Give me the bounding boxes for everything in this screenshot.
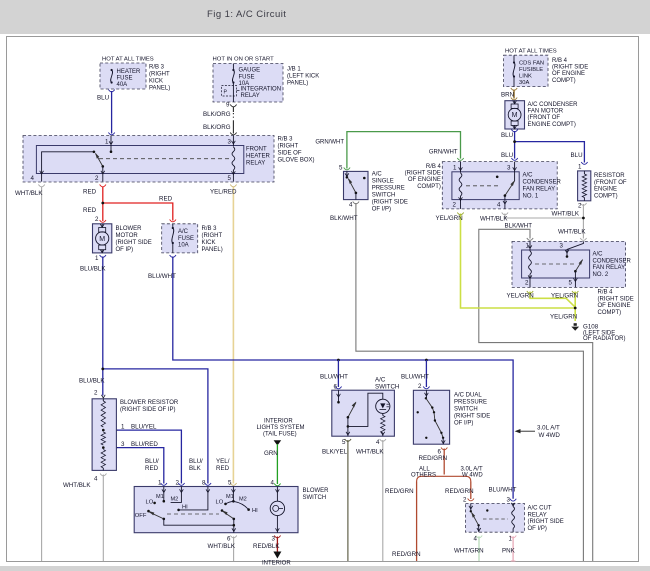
svg-text:BLU: BLU	[97, 95, 109, 102]
svg-text:(RIGHT SIDE: (RIGHT SIDE	[116, 240, 152, 246]
svg-text:HOT AT ALL TIMES: HOT AT ALL TIMES	[102, 57, 154, 63]
svg-text:RELAY: RELAY	[241, 93, 260, 99]
wire BRN fusible link to condenser fan motor	[513, 90, 515, 99]
svg-text:3.0L A/T: 3.0L A/T	[537, 425, 560, 432]
svg-text:BLU/YEL: BLU/YEL	[131, 423, 157, 430]
svg-text:(FRONT OF: (FRONT OF	[594, 180, 627, 186]
wire RED/GRN all-others branch to bottom	[416, 482, 418, 562]
svg-text:RED/GRN: RED/GRN	[392, 551, 421, 558]
svg-text:M2: M2	[239, 496, 247, 502]
wire YEL/GRN relays to ground G108	[461, 214, 576, 309]
svg-text:PRESSURE: PRESSURE	[454, 400, 487, 406]
svg-text:2: 2	[525, 280, 529, 287]
svg-text:BLU/RED: BLU/RED	[131, 441, 158, 448]
svg-text:8: 8	[202, 480, 206, 487]
svg-text:KICK: KICK	[202, 240, 216, 246]
svg-text:30A: 30A	[519, 80, 529, 86]
wire BLK/WHT relay2 pin1 loop to bottom rail	[479, 229, 593, 561]
svg-text:R/B 3: R/B 3	[278, 137, 294, 143]
svg-text:BLOWER: BLOWER	[116, 226, 143, 232]
svg-text:M: M	[99, 236, 105, 243]
svg-text:1: 1	[121, 423, 125, 430]
svg-text:M: M	[512, 112, 518, 119]
svg-text:(RIGHT: (RIGHT	[202, 233, 223, 239]
svg-text:W 4WD: W 4WD	[462, 473, 483, 479]
relay coil	[232, 136, 234, 147]
svg-text:INTERIOR: INTERIOR	[264, 419, 293, 425]
svg-text:(RIGHT SIDE OF IP): (RIGHT SIDE OF IP)	[120, 407, 176, 413]
svg-text:BLOWER RESISTOR: BLOWER RESISTOR	[120, 400, 179, 406]
svg-text:BLU/BLK: BLU/BLK	[79, 378, 105, 385]
svg-text:BLU/WHT: BLU/WHT	[489, 487, 517, 494]
wire RED/GRN 4wd branch to cut relay pin 2	[470, 482, 472, 500]
svg-text:MOTOR: MOTOR	[116, 233, 139, 239]
svg-text:4: 4	[271, 480, 275, 487]
wire BLU heater fuse to front heater relay pin 1	[111, 91, 113, 134]
svg-text:PNK: PNK	[502, 548, 516, 555]
svg-text:4: 4	[31, 175, 35, 182]
svg-text:6: 6	[438, 449, 442, 456]
svg-text:HOT AT ALL TIMES: HOT AT ALL TIMES	[505, 49, 557, 55]
svg-text:BLU: BLU	[501, 132, 513, 139]
svg-text:A/C CONDENSER: A/C CONDENSER	[528, 102, 579, 108]
wire BLU/WHT A/C fuse to A/C switch, dual pressure switch, cut relay	[173, 257, 513, 499]
svg-text:INTEGRATION: INTEGRATION	[241, 87, 282, 93]
wire BLU/YEL resistor tap1 to blower switch pin 2	[103, 430, 181, 483]
svg-text:(RIGHT: (RIGHT	[149, 72, 170, 78]
svg-text:YEL/GRN: YEL/GRN	[551, 293, 578, 300]
svg-text:SIDE OF: SIDE OF	[278, 151, 302, 157]
svg-text:3: 3	[272, 536, 276, 543]
svg-text:HEATER: HEATER	[246, 154, 271, 160]
A/C condenser fan relay no.1	[442, 162, 557, 209]
svg-text:5: 5	[569, 280, 573, 287]
svg-text:WHT/BLK: WHT/BLK	[15, 190, 43, 197]
svg-text:(RIGHT SIDE: (RIGHT SIDE	[454, 414, 490, 420]
svg-text:40A: 40A	[117, 82, 128, 88]
svg-text:OF ENGINE: OF ENGINE	[552, 71, 585, 77]
svg-text:R/B 4: R/B 4	[426, 164, 442, 170]
svg-text:5: 5	[228, 175, 232, 182]
svg-text:OTHERS: OTHERS	[411, 473, 436, 479]
svg-text:PANEL): PANEL)	[287, 81, 308, 87]
svg-text:OF I/P): OF I/P)	[372, 207, 391, 213]
svg-text:BLU: BLU	[501, 152, 513, 159]
svg-text:6: 6	[227, 536, 231, 543]
wire WHT/GRN cut relay pin4 to bottom	[478, 536, 480, 561]
svg-text:OF RADIATOR): OF RADIATOR)	[583, 336, 625, 342]
svg-text:WHT/BLK: WHT/BLK	[63, 482, 91, 489]
svg-text:FUSIBLE: FUSIBLE	[519, 67, 543, 73]
svg-text:A/C CUT: A/C CUT	[528, 506, 552, 512]
svg-text:WHT/BLK: WHT/BLK	[552, 211, 580, 218]
svg-text:2: 2	[578, 203, 582, 210]
svg-text:(TAIL FUSE): (TAIL FUSE)	[263, 432, 297, 438]
svg-text:HI: HI	[182, 504, 188, 510]
svg-text:(RIGHT SIDE: (RIGHT SIDE	[528, 519, 564, 525]
svg-text:1: 1	[578, 164, 582, 171]
blower switch left gang	[163, 487, 165, 501]
svg-text:WHT/BLK: WHT/BLK	[558, 229, 586, 236]
A/C condenser fan motor	[505, 101, 525, 129]
svg-text:R/B 4: R/B 4	[552, 58, 568, 64]
wire BLK/YEL a/c switch pin5 to bottom	[347, 440, 349, 561]
relay2 switch	[567, 241, 583, 256]
svg-text:GLOVE BOX): GLOVE BOX)	[278, 158, 315, 164]
svg-text:9: 9	[226, 102, 230, 109]
svg-text:J/B 1: J/B 1	[287, 67, 301, 73]
svg-text:3: 3	[560, 243, 564, 250]
svg-text:W 4WD: W 4WD	[539, 432, 561, 439]
svg-text:BLOWER: BLOWER	[303, 488, 330, 494]
svg-text:R/B 3: R/B 3	[202, 226, 218, 232]
svg-text:4: 4	[94, 475, 98, 482]
wire WHT/BLK blower switch pin6 to bottom	[233, 537, 235, 562]
relay switch arm	[96, 154, 103, 167]
svg-text:SWITCH: SWITCH	[372, 193, 396, 199]
svg-text:OF I/P): OF I/P)	[528, 526, 547, 532]
svg-text:2: 2	[95, 175, 99, 182]
svg-text:LO: LO	[146, 500, 154, 506]
wire BLU condenser fan motor to relay1 pin3 and resistor	[514, 131, 516, 159]
svg-text:ENGINE: ENGINE	[594, 187, 617, 193]
svg-text:2: 2	[94, 390, 98, 397]
svg-text:GRN: GRN	[264, 450, 278, 457]
svg-text:G108: G108	[583, 324, 599, 331]
svg-text:ALL: ALL	[419, 466, 430, 472]
A/C condenser fan relay no.2	[512, 241, 626, 287]
svg-text:10A: 10A	[178, 243, 189, 249]
svg-text:OF I/P): OF I/P)	[454, 421, 473, 427]
svg-text:(RIGHT SIDE: (RIGHT SIDE	[552, 65, 588, 71]
relay contact: pin4 path	[42, 152, 94, 182]
svg-text:KICK: KICK	[149, 79, 163, 85]
svg-text:NO. 2: NO. 2	[593, 272, 609, 278]
svg-text:2: 2	[95, 216, 99, 223]
svg-text:OFF: OFF	[135, 513, 147, 519]
svg-text:HI: HI	[252, 508, 258, 514]
wire RED/GRN dual pressure pin6 split branches	[443, 449, 445, 475]
relay2 coil	[529, 241, 531, 251]
svg-text:2: 2	[463, 497, 467, 504]
svg-text:WHT/BLK: WHT/BLK	[356, 449, 384, 456]
integration relay sub-symbol	[222, 86, 237, 97]
wire RED/BLK blower switch pin3 arrow to interior lights	[276, 537, 278, 552]
svg-text:FUSE: FUSE	[117, 76, 133, 82]
svg-text:(FRONT OF: (FRONT OF	[528, 115, 561, 121]
wire GRN interior lights to blower switch pin 4	[274, 440, 282, 445]
svg-text:RED: RED	[83, 207, 97, 214]
svg-text:BLU/WHT: BLU/WHT	[320, 374, 348, 381]
svg-text:1: 1	[95, 255, 99, 262]
svg-text:1: 1	[509, 536, 513, 543]
note 3.0L A/T W 4WD arrow	[520, 430, 536, 432]
svg-text:2: 2	[453, 202, 457, 209]
svg-text:BLU/WHT: BLU/WHT	[401, 374, 429, 381]
wire WHT/BLK blower resistor pin4 to bottom	[102, 475, 104, 562]
svg-text:(LEFT KICK: (LEFT KICK	[287, 74, 319, 80]
svg-text:RED: RED	[83, 189, 97, 196]
wire WHT/BLK a/c switch pin4 to bottom	[382, 440, 384, 561]
svg-text:FUSE: FUSE	[178, 236, 194, 242]
relay contact: pin1 feed	[110, 136, 112, 152]
svg-text:YEL/GRN: YEL/GRN	[436, 215, 463, 222]
svg-text:OF ENGINE: OF ENGINE	[408, 177, 441, 183]
svg-text:PRESSURE: PRESSURE	[372, 186, 405, 192]
svg-text:RED/GRN: RED/GRN	[385, 488, 414, 495]
svg-text:SWITCH: SWITCH	[303, 495, 327, 501]
title bar	[0, 0, 650, 34]
svg-text:ENGINE COMPT): ENGINE COMPT)	[528, 122, 576, 128]
svg-text:RED: RED	[216, 465, 230, 472]
svg-text:A/C: A/C	[523, 173, 534, 179]
svg-text:6: 6	[334, 384, 338, 391]
svg-text:SWITCH: SWITCH	[375, 383, 399, 390]
svg-text:A/C: A/C	[178, 229, 189, 235]
svg-text:2: 2	[418, 383, 422, 390]
wire WHT/BLK front heater relay pin 4 to bottom	[41, 187, 43, 562]
svg-text:FAN MOTOR: FAN MOTOR	[528, 109, 564, 115]
svg-text:3.0L A/T: 3.0L A/T	[461, 466, 483, 472]
svg-text:FAN RELAY: FAN RELAY	[593, 265, 626, 271]
svg-text:PANEL): PANEL)	[149, 86, 170, 92]
svg-text:(RIGHT SIDE: (RIGHT SIDE	[405, 171, 441, 177]
svg-text:GRN/WHT: GRN/WHT	[429, 150, 458, 156]
svg-text:RED: RED	[145, 465, 159, 472]
svg-text:BRN: BRN	[501, 92, 514, 99]
svg-text:WHT/BLK: WHT/BLK	[480, 216, 508, 223]
svg-text:RELAY: RELAY	[528, 512, 547, 518]
svg-text:CONDENSER: CONDENSER	[523, 180, 562, 186]
svg-text:(RIGHT SIDE: (RIGHT SIDE	[372, 200, 408, 206]
svg-text:A/C: A/C	[593, 252, 604, 258]
svg-text:BLU: BLU	[571, 152, 583, 159]
wire WHT/BLK relay1 pin4 + resistor pin2 to relay2 pin3	[505, 214, 584, 239]
svg-text:PANEL): PANEL)	[202, 247, 223, 253]
svg-text:RED/BLK: RED/BLK	[253, 543, 280, 550]
A/C fuse 10A	[162, 224, 198, 253]
ground G108	[574, 323, 577, 326]
svg-text:R/B 3: R/B 3	[149, 65, 165, 71]
svg-text:BLU/BLK: BLU/BLK	[80, 266, 106, 273]
svg-text:OF ENGINE: OF ENGINE	[598, 303, 631, 309]
wire YEL/RED relay pin5 to blower switch pin 5	[232, 187, 234, 484]
svg-text:R/B 4: R/B 4	[598, 290, 614, 296]
footer bar	[0, 566, 650, 571]
svg-text:M2: M2	[171, 497, 179, 503]
svg-text:HOT IN ON OR START: HOT IN ON OR START	[213, 57, 275, 63]
svg-text:LINK: LINK	[519, 74, 532, 80]
svg-text:A/C: A/C	[372, 172, 383, 178]
svg-text:FAN RELAY: FAN RELAY	[523, 187, 556, 193]
svg-text:P: P	[224, 90, 228, 96]
svg-text:BLK/ORG: BLK/ORG	[203, 124, 231, 131]
svg-text:RESISTOR: RESISTOR	[594, 173, 625, 179]
front heater relay R/B3	[23, 136, 274, 183]
svg-text:FRONT: FRONT	[246, 147, 267, 153]
svg-text:GRN/WHT: GRN/WHT	[315, 140, 344, 146]
svg-text:3: 3	[507, 497, 511, 504]
wire BLK/ORG gauge fuse to relay pin 3	[232, 107, 234, 113]
wire GRN/WHT single pressure switch to relay1 pin 1	[347, 132, 461, 169]
svg-text:BLK: BLK	[189, 465, 202, 472]
relay1 switch	[514, 162, 516, 181]
svg-text:YEL/GRN: YEL/GRN	[507, 293, 534, 300]
svg-text:OF IP): OF IP)	[116, 247, 134, 253]
svg-text:M1: M1	[156, 494, 164, 500]
svg-text:WHT/GRN: WHT/GRN	[454, 548, 484, 555]
svg-text:LIGHTS SYSTEM: LIGHTS SYSTEM	[257, 425, 305, 431]
wire PNK cut relay pin1 to bottom	[512, 536, 514, 561]
svg-text:BLK/YEL: BLK/YEL	[322, 449, 348, 456]
svg-text:(RIGHT: (RIGHT	[278, 144, 299, 150]
blower switch	[134, 487, 298, 533]
svg-text:NO. 1: NO. 1	[523, 194, 539, 200]
svg-text:CONDENSER: CONDENSER	[593, 258, 632, 264]
svg-text:M1: M1	[226, 494, 234, 500]
svg-text:3: 3	[121, 441, 125, 448]
svg-text:RED/GRN: RED/GRN	[445, 488, 474, 495]
svg-text:1: 1	[453, 165, 457, 172]
svg-text:GAUGE: GAUGE	[239, 68, 261, 74]
wire BLK/WHT single pressure switch pin 4 to bottom right rail	[356, 203, 584, 561]
svg-text:SINGLE: SINGLE	[372, 179, 394, 185]
svg-text:SWITCH: SWITCH	[454, 407, 478, 413]
svg-text:A/C DUAL: A/C DUAL	[454, 393, 482, 399]
svg-text:4: 4	[497, 202, 501, 209]
svg-text:WHT/BLK: WHT/BLK	[208, 543, 236, 550]
svg-text:COMPT): COMPT)	[598, 310, 622, 316]
svg-text:5: 5	[339, 165, 343, 172]
svg-text:YEL/RED: YEL/RED	[210, 189, 237, 196]
svg-text:(RIGHT SIDE: (RIGHT SIDE	[598, 296, 634, 302]
svg-text:COMPT): COMPT)	[417, 184, 441, 190]
svg-text:1: 1	[158, 480, 162, 487]
svg-text:FUSE: FUSE	[239, 74, 255, 80]
svg-text:COMPT): COMPT)	[552, 78, 576, 84]
svg-text:YEL/GRN: YEL/GRN	[550, 314, 577, 321]
svg-text:RED: RED	[159, 196, 173, 203]
svg-text:RED/GRN: RED/GRN	[419, 455, 448, 462]
svg-text:4: 4	[376, 439, 380, 446]
wire BLU/BLK blower motor to resistor + blower switch pin 8	[102, 257, 104, 396]
svg-text:HEATER: HEATER	[117, 69, 142, 75]
svg-text:2: 2	[176, 480, 180, 487]
svg-text:3: 3	[228, 139, 232, 146]
svg-text:LO: LO	[216, 500, 224, 506]
svg-text:BLK/ORG: BLK/ORG	[203, 111, 231, 118]
svg-text:4: 4	[349, 202, 353, 209]
svg-text:5: 5	[342, 439, 346, 446]
svg-text:CDS FAN: CDS FAN	[519, 61, 544, 67]
svg-text:RELAY: RELAY	[246, 161, 265, 167]
svg-text:3: 3	[507, 165, 511, 172]
relay1 coil	[460, 162, 462, 173]
svg-text:4: 4	[474, 536, 478, 543]
svg-text:COMPT): COMPT)	[594, 193, 618, 199]
wire BLU/RED resistor tap2 to blower switch pin 1	[103, 448, 164, 484]
blower switch right gang	[232, 487, 234, 502]
svg-text:BLK/WHT: BLK/WHT	[330, 215, 358, 222]
svg-text:1: 1	[105, 139, 109, 146]
svg-text:BLU/WHT: BLU/WHT	[148, 273, 176, 280]
svg-text:5: 5	[228, 480, 232, 487]
blower switch illumination lamp	[276, 487, 278, 502]
svg-text:BLK/WHT: BLK/WHT	[505, 223, 533, 230]
wire RED relay pin2 to blower motor and A/C fuse	[102, 187, 104, 222]
